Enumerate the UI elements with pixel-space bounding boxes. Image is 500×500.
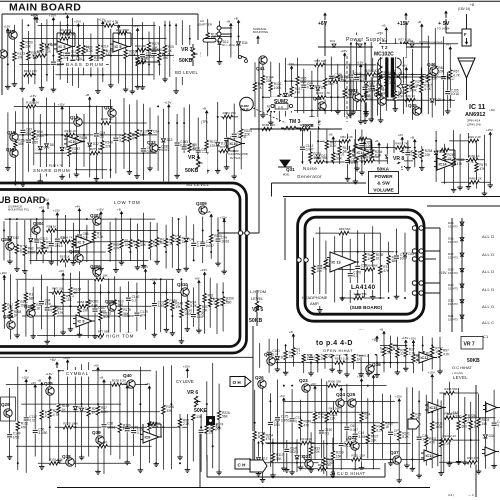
resistor R215 (filler) xyxy=(215,283,228,334)
svg-text:+15V: +15V xyxy=(58,103,65,107)
svg-text:R208 1K: R208 1K xyxy=(101,117,113,121)
resistor (series) (filler) xyxy=(445,412,458,420)
svg-text:+6V: +6V xyxy=(311,382,316,386)
sub board pin xyxy=(238,231,242,235)
resistor R259 (filler) xyxy=(417,20,431,113)
wire with ground (filler) xyxy=(279,394,286,471)
tag C H xyxy=(235,459,256,469)
svg-text:Q40: Q40 xyxy=(123,373,132,378)
transistor Q306 xyxy=(90,264,101,276)
wire with ground (filler) xyxy=(130,18,136,94)
transformer T2 core bars xyxy=(385,58,394,98)
bus vertical x476 bottom xyxy=(475,385,477,497)
resistor R209 (filler) xyxy=(239,110,252,170)
wire (filler) xyxy=(37,335,125,337)
wire (filler) xyxy=(289,64,377,66)
junction (filler) xyxy=(58,370,60,372)
transistor Q39 xyxy=(92,430,104,444)
resistor (series) (filler) xyxy=(340,135,353,143)
VR8 pot xyxy=(388,153,404,172)
resistor (series) (filler) xyxy=(346,438,358,446)
svg-text:IC10: IC10 xyxy=(69,140,77,144)
wire (filler) xyxy=(86,225,88,262)
resistor R105 (filler) xyxy=(323,59,336,114)
junction (filler) xyxy=(74,426,76,428)
resistor (series) (filler) xyxy=(468,154,480,162)
wire (filler) xyxy=(302,468,380,470)
junction (filler) xyxy=(139,403,141,405)
diode D3 (filler) xyxy=(30,13,42,84)
wire (filler) xyxy=(285,411,368,413)
transistor Q42 xyxy=(313,96,326,110)
junction (filler) xyxy=(337,96,339,98)
junction (filler) xyxy=(284,80,286,82)
resistor (series) (filler) xyxy=(37,246,49,254)
resistor R165 with ground (filler) xyxy=(133,24,148,89)
capacitor C169 (filler) xyxy=(275,380,290,462)
transistor Q41 xyxy=(256,56,267,71)
svg-text:R93 10K: R93 10K xyxy=(52,287,64,291)
junction (filler) xyxy=(7,63,9,65)
capacitor C136 with ground (filler) xyxy=(345,134,357,182)
resistor R245 with ground (filler) xyxy=(451,130,465,192)
wire (filler) xyxy=(110,381,112,455)
resistor R282 with ground (filler) xyxy=(117,208,132,266)
svg-text:R306 56K: R306 56K xyxy=(444,387,457,391)
resistor R116 with ground (filler) xyxy=(77,271,89,337)
capacitor C126 (filler) xyxy=(34,219,48,261)
svg-text:Q42: Q42 xyxy=(313,96,322,101)
junction (filler) xyxy=(324,109,326,111)
svg-text:+15V: +15V xyxy=(486,128,493,132)
svg-text:0.047: 0.047 xyxy=(350,428,358,432)
resistor R238 (filler) xyxy=(52,288,64,337)
VR3 pot xyxy=(174,44,200,77)
svg-text:+6V: +6V xyxy=(194,276,199,280)
label SNARE DRUM xyxy=(31,167,75,174)
wire (filler) xyxy=(378,99,455,101)
svg-text:+6V: +6V xyxy=(145,382,150,386)
resistor (series) (filler) xyxy=(104,19,118,27)
svg-text:+B: +B xyxy=(85,93,89,97)
svg-text:IC 9: IC 9 xyxy=(78,320,85,324)
svg-text:33K: 33K xyxy=(166,409,173,413)
svg-text:+6V: +6V xyxy=(39,205,44,209)
wire with ground (filler) xyxy=(331,402,337,475)
svg-text:+B: +B xyxy=(226,19,230,23)
junction (filler) xyxy=(420,76,422,78)
wire (filler) xyxy=(323,161,359,163)
junction (filler) xyxy=(431,411,433,413)
svg-text:D4: D4 xyxy=(189,237,193,241)
resistor (series) (filler) xyxy=(335,357,349,365)
wire (filler) xyxy=(338,268,375,270)
svg-text:MAIN BOARD: MAIN BOARD xyxy=(9,2,81,14)
svg-text:+15V: +15V xyxy=(97,208,104,212)
transistor Q27 xyxy=(264,352,275,365)
resistor (series) (filler) xyxy=(339,227,351,235)
junction (filler) xyxy=(388,297,390,299)
svg-text:50KB: 50KB xyxy=(467,358,480,364)
capacitor C112 with ground (filler) xyxy=(392,38,406,111)
capacitor C103 with ground (filler) xyxy=(317,227,331,313)
label LOW TOM xyxy=(112,199,148,206)
svg-text:D34: D34 xyxy=(242,41,248,45)
resistor R264 with ground (filler) xyxy=(410,387,422,471)
junction (filler) xyxy=(160,278,162,280)
svg-text:R89 56K: R89 56K xyxy=(339,227,351,231)
jack pin xyxy=(217,26,232,30)
svg-text:Noise: Noise xyxy=(303,166,317,171)
junction (filler) xyxy=(200,426,202,428)
diode D36 (filler) xyxy=(434,131,446,182)
svg-text:+6V: +6V xyxy=(75,205,80,209)
junction (filler) xyxy=(421,43,423,45)
resistor R291 (filler) xyxy=(39,205,53,263)
resistor R262 (filler) xyxy=(378,233,390,297)
svg-text:ALL D: ALL D xyxy=(482,234,494,239)
svg-text:IC15: IC15 xyxy=(426,454,434,458)
junction (filler) xyxy=(86,218,88,220)
wire (filler) xyxy=(22,315,141,317)
svg-text:R287 4.7K: R287 4.7K xyxy=(104,19,118,23)
wire (filler) xyxy=(65,215,67,267)
svg-text:Q32: Q32 xyxy=(147,140,156,145)
svg-text:D32: D32 xyxy=(93,142,99,146)
svg-text:R50 56K: R50 56K xyxy=(37,246,49,250)
transistor Q37 xyxy=(390,450,401,464)
op-amp IC15b xyxy=(421,450,442,461)
resistor R257 with ground (filler) xyxy=(13,111,27,185)
capacitor C57 with ground (filler) xyxy=(44,286,58,344)
junction (filler) xyxy=(123,134,125,136)
svg-text:Q301: Q301 xyxy=(3,314,14,319)
junction (filler) xyxy=(179,462,181,464)
svg-text:33K: 33K xyxy=(202,309,209,313)
resistor R26 with ground (filler) xyxy=(438,400,452,475)
svg-text:Q19: Q19 xyxy=(6,147,15,152)
bus wire vertical x285 xyxy=(284,198,286,260)
junction (filler) xyxy=(389,362,391,364)
resistor (series) (filler) xyxy=(357,94,371,102)
wire top bass drum y14 xyxy=(2,13,198,15)
resistor R217 with ground (filler) xyxy=(330,438,344,478)
feedback IC14a xyxy=(355,137,371,152)
resistor R22 with ground (filler) xyxy=(216,384,230,475)
svg-text:Q308: Q308 xyxy=(105,299,116,304)
svg-text:VR 3: VR 3 xyxy=(181,47,193,53)
svg-text:R6 480K: R6 480K xyxy=(60,28,72,32)
svg-text:1S2473: 1S2473 xyxy=(448,256,458,260)
junction (filler) xyxy=(83,63,85,65)
svg-text:R48 8.2K: R48 8.2K xyxy=(469,176,482,180)
junction (filler) xyxy=(326,443,328,445)
feedback IC8 xyxy=(143,422,161,437)
diode D4 (filler) xyxy=(295,439,307,472)
junction (filler) xyxy=(418,400,420,402)
junction (filler) xyxy=(210,251,212,253)
resistor (series) (filler) xyxy=(365,263,378,271)
resistor R262 with ground (filler) xyxy=(14,280,28,338)
wire (filler) xyxy=(5,218,156,220)
svg-text:Q27: Q27 xyxy=(264,352,273,357)
bus vertical x253 lower xyxy=(252,326,254,468)
diode D13 (filler) xyxy=(283,58,295,117)
junction (filler) xyxy=(411,74,413,76)
IC11 AN6912 xyxy=(464,102,500,128)
svg-text:1/50: 1/50 xyxy=(32,141,38,145)
wire with ground (filler) xyxy=(138,367,144,473)
diode D17 with ground (filler) xyxy=(58,103,72,180)
resistor R68 (filler) xyxy=(0,271,14,329)
svg-text:10K: 10K xyxy=(17,56,24,60)
note for -31m xyxy=(222,43,237,47)
resistor R112 with ground (filler) xyxy=(335,64,349,114)
junction (filler) xyxy=(303,345,305,347)
svg-text:CY LEVE: CY LEVE xyxy=(176,379,194,384)
transistor Q22 xyxy=(348,435,359,450)
dashed line sw xyxy=(346,56,348,122)
svg-text:+6V: +6V xyxy=(50,358,57,362)
resistor R232 (filler) xyxy=(289,330,304,367)
svg-text:+15V: +15V xyxy=(287,62,294,66)
resistor R8 (filler) xyxy=(89,33,102,77)
label (SUB BOARD) xyxy=(348,303,390,311)
svg-text:R154 8.2K: R154 8.2K xyxy=(77,300,91,304)
svg-text:1S2473: 1S2473 xyxy=(448,271,458,275)
junction (filler) xyxy=(202,230,204,232)
ac adapter label xyxy=(197,19,213,27)
junction (filler) xyxy=(405,76,407,78)
wire (filler) xyxy=(226,19,232,57)
resistor R273 (filler) xyxy=(324,241,337,305)
top right note xyxy=(458,3,474,11)
junction (filler) xyxy=(447,76,449,78)
capacitor C175 with ground (filler) xyxy=(318,379,332,471)
op-amp IC15a xyxy=(425,402,446,413)
junction (filler) xyxy=(317,140,319,142)
svg-text:15K: 15K xyxy=(482,422,489,426)
svg-text:Q307: Q307 xyxy=(90,213,101,218)
wire (filler) xyxy=(141,265,148,330)
svg-text:1S2473: 1S2473 xyxy=(448,302,458,306)
power input funnel xyxy=(458,58,475,100)
svg-text:IC 5: IC 5 xyxy=(115,45,122,49)
resistor R46 (filler) xyxy=(86,280,99,338)
junction (filler) xyxy=(448,461,450,463)
capacitor C130 (filler) xyxy=(31,381,48,457)
transistors Q24 Q25 xyxy=(336,392,356,407)
junction (filler) xyxy=(283,385,285,387)
junction (filler) xyxy=(78,230,80,232)
wire (filler) xyxy=(354,74,435,76)
svg-text:1S2473: 1S2473 xyxy=(448,287,458,291)
svg-text:R191 15K: R191 15K xyxy=(300,123,313,127)
headphone pins right edge xyxy=(412,226,423,295)
resistor R53 with ground (filler) xyxy=(437,337,450,374)
svg-text:+15V: +15V xyxy=(164,101,171,105)
svg-text:LA4140: LA4140 xyxy=(351,284,376,291)
wire (filler) xyxy=(264,96,354,98)
junction (filler) xyxy=(386,147,388,149)
resistor R37 (filler) xyxy=(324,381,337,476)
label SUB BOARD xyxy=(0,194,45,205)
capacitor C58 with ground (filler) xyxy=(7,388,21,460)
svg-text:R82 2.2K: R82 2.2K xyxy=(340,135,353,139)
svg-text:+6V: +6V xyxy=(402,63,407,67)
capacitor C53 (filler) xyxy=(63,11,79,83)
feedback loop IC5b xyxy=(113,28,131,46)
resistor (series) (filler) xyxy=(49,457,63,465)
wire (filler) xyxy=(320,140,349,142)
capacitor C211 (filler) xyxy=(38,275,51,330)
svg-text:50KE: 50KE xyxy=(194,408,208,414)
svg-text:33K: 33K xyxy=(276,457,283,461)
svg-text:CL'D HIHAT: CL'D HIHAT xyxy=(337,471,366,476)
svg-text:1S2473: 1S2473 xyxy=(448,318,458,322)
svg-text:Q24 Q25: Q24 Q25 xyxy=(336,392,356,398)
svg-text:100P: 100P xyxy=(400,257,407,261)
junction (filler) xyxy=(17,462,19,464)
svg-text:2.2K: 2.2K xyxy=(444,442,451,446)
junction (filler) xyxy=(157,105,159,107)
svg-text:(TP): (TP) xyxy=(201,120,208,124)
surface mounting note xyxy=(253,27,268,44)
capacitor C73 with ground (filler) xyxy=(445,72,459,114)
junction (filler) xyxy=(197,169,199,171)
resistor R56 (filler) xyxy=(332,236,345,302)
svg-text:to p.4 4-D: to p.4 4-D xyxy=(316,340,353,347)
resistor R126 (filler) xyxy=(351,344,364,370)
svg-text:+15V: +15V xyxy=(3,25,10,29)
svg-text:10/16: 10/16 xyxy=(107,425,115,429)
svg-text:22K: 22K xyxy=(244,133,251,137)
wire (filler) xyxy=(20,251,106,253)
capacitor C155 with ground (filler) xyxy=(49,14,64,92)
resistor R20 (filler) xyxy=(221,282,234,331)
diode D40 (filler) xyxy=(28,219,40,264)
transistor Q15 xyxy=(6,29,17,39)
svg-text:47K: 47K xyxy=(304,423,311,427)
svg-text:+B: +B xyxy=(375,139,379,143)
wire snare out y129 xyxy=(250,123,342,131)
resistor R38 with ground (filler) xyxy=(270,439,284,478)
resistor R139 (filler) xyxy=(26,31,39,84)
junction (filler) xyxy=(54,292,56,294)
junction (filler) xyxy=(9,411,11,413)
junction (filler) xyxy=(110,169,112,171)
junction (filler) xyxy=(110,55,112,57)
wire (filler) xyxy=(29,259,148,261)
svg-text:ALL D: ALL D xyxy=(482,252,494,257)
junction (filler) xyxy=(155,462,157,464)
wire with ground (filler) xyxy=(153,371,159,467)
transistor Q16 xyxy=(104,105,116,117)
resistor R209 (filler) xyxy=(189,379,204,462)
svg-text:47K: 47K xyxy=(266,437,273,441)
junction (filler) xyxy=(350,43,352,45)
dashed wire to TM3 xyxy=(253,108,286,123)
label LEVEL right xyxy=(451,374,477,380)
wire with ground (filler) xyxy=(486,128,493,188)
resistor R32 (filler) xyxy=(321,333,336,369)
diode D12 (filler) xyxy=(44,19,56,81)
junction (filler) xyxy=(219,35,221,37)
jack pin xyxy=(217,32,232,36)
svg-text:+15V: +15V xyxy=(428,371,435,375)
svg-text:R272 56K: R272 56K xyxy=(354,292,367,296)
capacitor C135 with ground (filler) xyxy=(48,226,62,265)
transistor Q310 xyxy=(177,282,189,296)
capacitor C80 with ground (filler) xyxy=(352,398,367,473)
junction (filler) xyxy=(443,99,445,101)
svg-text:Q309: Q309 xyxy=(196,201,207,206)
resistor (series) (filler) xyxy=(37,50,51,58)
svg-text:MOUNTING: MOUNTING xyxy=(253,30,268,34)
svg-text:+15V: +15V xyxy=(22,375,29,379)
transistor Q17 xyxy=(70,115,82,126)
svg-text:CYMBAL: CYMBAL xyxy=(66,371,89,376)
resistor R63 (filler) xyxy=(369,140,382,163)
svg-text:IC8: IC8 xyxy=(145,436,151,440)
resistor R167 (filler) xyxy=(410,49,423,120)
power +6V arrow xyxy=(372,336,379,342)
capacitor C30 with ground (filler) xyxy=(231,104,246,179)
svg-text:D8: D8 xyxy=(50,143,54,147)
resistor R118 (filler) xyxy=(86,362,99,457)
svg-text:3-4 |: 3-4 | xyxy=(448,493,454,497)
resistor R166 (filler) xyxy=(315,341,328,372)
svg-text:R252 56K: R252 56K xyxy=(314,156,327,160)
resistor (series) (filler) xyxy=(330,75,343,83)
junction (filler) xyxy=(324,345,326,347)
resistor R86 (filler) xyxy=(321,440,335,474)
svg-text:IC 11: IC 11 xyxy=(469,104,485,111)
svg-text:Q22: Q22 xyxy=(348,435,357,440)
svg-text:+6V: +6V xyxy=(59,269,64,273)
small opamp right 2 xyxy=(482,447,499,456)
svg-text:+6V: +6V xyxy=(279,394,284,398)
power rail wire +5V xyxy=(446,19,462,33)
resistor R268 with ground (filler) xyxy=(260,57,274,117)
junction (filler) xyxy=(368,362,370,364)
power +6V arrow cymbal xyxy=(50,358,58,368)
svg-text:ALL C: ALL C xyxy=(482,320,494,325)
wire (filler) xyxy=(63,356,70,464)
capacitor C80 (filler) xyxy=(344,384,358,459)
resistor R216 (filler) xyxy=(164,225,177,269)
resistor R296 (filler) xyxy=(390,68,405,109)
transistor Q32 xyxy=(147,140,158,152)
wire with ground (filler) xyxy=(366,338,372,377)
svg-text:10/16: 10/16 xyxy=(451,92,459,96)
svg-text:+15V: +15V xyxy=(29,94,36,98)
capacitor C201 with ground (filler) xyxy=(368,35,382,122)
svg-text:R311 2.2K: R311 2.2K xyxy=(352,453,366,457)
fuse box F xyxy=(462,14,471,46)
junction (filler) xyxy=(72,251,74,253)
resistor R170 with ground (filler) xyxy=(95,18,109,93)
resistor (series) (filler) xyxy=(65,129,77,137)
svg-text:LOW TOM: LOW TOM xyxy=(114,200,140,205)
resistor R33 (filler) xyxy=(210,363,223,468)
resistor R72 (filler) xyxy=(311,382,326,460)
wire with ground (filler) xyxy=(220,215,227,274)
transistor Q309 xyxy=(196,201,207,214)
svg-text:R38 1K: R38 1K xyxy=(47,225,57,229)
svg-text:+15V: +15V xyxy=(45,372,52,376)
junction (filler) xyxy=(330,96,332,98)
